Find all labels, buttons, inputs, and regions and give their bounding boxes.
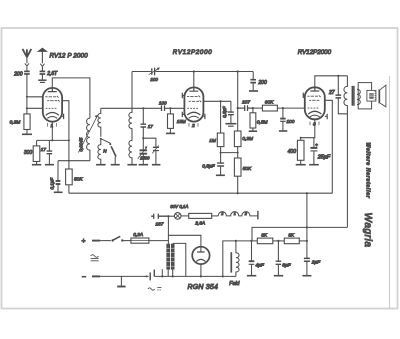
- capacitor 2uF: [306, 261, 308, 275]
- rectifier tube RGN354: [192, 247, 209, 264]
- node top rail / coupling: [237, 70, 239, 72]
- wire filter node row: [223, 241, 257, 277]
- wire anode feed rectifier: [168, 235, 201, 251]
- tube V2 pin bar right: [203, 114, 205, 120]
- resistor 15M: [169, 108, 171, 114]
- resistor 0,5M: [252, 108, 254, 113]
- svg-text:0,2M: 0,2M: [10, 120, 21, 126]
- svg-text:17: 17: [41, 147, 47, 152]
- choke (barretter): [218, 212, 257, 216]
- svg-text:200: 200: [13, 71, 23, 77]
- fuse 0,2A: [122, 240, 131, 242]
- ground (1500): [139, 164, 149, 166]
- terminal bar (minus plug): [149, 272, 151, 280]
- ground (25uF): [309, 164, 319, 166]
- tube V1 RV12P2000 (capsule): [43, 88, 62, 122]
- lamp 30V 0,1A: [168, 215, 174, 217]
- svg-text:2: 2: [191, 123, 195, 129]
- wire detector node: [58, 160, 90, 162]
- mains transformer primary winding: [167, 216, 169, 244]
- tube V3 anode top cap: [310, 87, 319, 91]
- wire secondary top to rail: [173, 243, 186, 276]
- svg-text:N: N: [103, 149, 107, 154]
- switch N (band): [101, 139, 111, 144]
- earth terminal arrow symbol: [38, 48, 46, 51]
- svg-text:200: 200: [257, 80, 267, 86]
- svg-text:2: 2: [244, 212, 247, 216]
- wire minus lead: [92, 275, 100, 277]
- wire plus lead: [92, 240, 100, 242]
- svg-text:RV12P2000: RV12P2000: [298, 49, 332, 56]
- output transformer primary: [344, 76, 347, 228]
- label tube number 3: [310, 122, 319, 126]
- symbol AC/DC: [91, 255, 99, 258]
- ground (15M): [166, 132, 175, 134]
- ground (switch): [111, 164, 120, 166]
- plug chevron earth: [40, 64, 44, 67]
- speaker cone: [379, 89, 381, 103]
- capacitor 8uF: [277, 241, 279, 275]
- svg-text:1: 1: [234, 212, 236, 216]
- svg-text:Weitere Hersteller: Weitere Hersteller: [364, 143, 370, 199]
- node 17/1500: [142, 137, 144, 139]
- ground (0,5uF plate): [225, 123, 236, 125]
- resistor 400: [300, 138, 302, 141]
- wire long chassis rail: [69, 192, 332, 194]
- svg-text:1M: 1M: [209, 138, 216, 144]
- tube V2 electrode row 1: [187, 96, 200, 98]
- wire grid feeds tube 1: [27, 97, 43, 109]
- node antenna/grid: [26, 96, 28, 98]
- tube V3 pin bar right: [325, 114, 327, 120]
- svg-text:17: 17: [148, 124, 154, 129]
- antenna: [23, 49, 32, 57]
- wire tube V1 cathode down: [51, 122, 53, 141]
- svg-text:100: 100: [159, 101, 167, 106]
- capacitor 200 (antenna): [24, 70, 30, 72]
- label tube number 2: [189, 123, 198, 127]
- ground (0,1uF): [54, 191, 63, 193]
- wire tube V1 anode to coil: [52, 78, 90, 118]
- svg-text:0,5M: 0,5M: [257, 119, 268, 125]
- svg-text:2,6T: 2,6T: [46, 71, 58, 77]
- tube V3 cathode arcs: [308, 111, 321, 114]
- wire tube V2 plate node: [203, 100, 231, 102]
- svg-text:3K: 3K: [288, 232, 295, 237]
- node 187/lamp: [167, 215, 169, 217]
- node rail/17: [142, 107, 144, 109]
- ground (L3): [127, 164, 136, 166]
- svg-text:400: 400: [288, 149, 297, 155]
- ground (300): [32, 164, 41, 166]
- svg-text:0,5µF: 0,5µF: [202, 163, 215, 169]
- resistor 0,2M: [237, 108, 239, 131]
- ground (0,2M): [22, 133, 32, 135]
- coil L1 0,0045 (variable): [87, 118, 90, 161]
- wire tube V3 screen lead right: [325, 100, 333, 193]
- svg-text:0,5µF: 0,5µF: [222, 106, 227, 118]
- wire tube V1 diode plate down: [62, 101, 69, 161]
- resistor 3K (second): [284, 238, 299, 244]
- svg-text:50K: 50K: [74, 177, 83, 183]
- resistor 0,2M: [24, 114, 30, 130]
- wire tube V3 cathode: [301, 119, 315, 137]
- capacitor 25uF (electrolytic): [313, 138, 315, 165]
- output transformer core: [352, 86, 354, 106]
- label tube number 1: [48, 123, 57, 127]
- capacitor 100 trimmer (top rail): [152, 68, 155, 76]
- wire rectifier cathode: [200, 264, 202, 276]
- resistor 300: [36, 140, 38, 146]
- tube V3 RV12P2000 (capsule): [305, 87, 325, 119]
- svg-text:+: +: [81, 238, 85, 245]
- ground (17): [45, 164, 54, 166]
- ground (0,5M): [249, 130, 257, 132]
- wire 3K to screen line: [299, 240, 307, 242]
- tube V1 grid row: [46, 107, 57, 109]
- tube V3 electrode row 2: [309, 99, 319, 101]
- speaker voice coil box: [367, 90, 376, 101]
- arrow L1 variable: [78, 117, 97, 153]
- resistor 1M: [220, 101, 222, 133]
- wire tube V3 anode to transformer: [315, 76, 348, 88]
- tube V2 anode top cap: [189, 87, 198, 91]
- capacitor 200 (top rail, to ground): [252, 72, 254, 91]
- ground (0,5uF AF): [216, 174, 225, 176]
- svg-text:107: 107: [242, 99, 250, 105]
- ground (trimmer): [152, 164, 161, 166]
- tube V2 RV12P2000 (capsule): [184, 87, 203, 121]
- tube V2 pin bars left: [182, 93, 184, 117]
- wire 1M/0,2M junction: [221, 152, 238, 154]
- capacitor 17 (cathode): [48, 140, 50, 164]
- ground (100): [279, 130, 287, 132]
- wire screen feed vertical: [306, 193, 308, 258]
- capacitor 100 (series grid): [162, 105, 165, 111]
- node tube V2 anode/top rail: [193, 70, 195, 72]
- node 0,5M: [252, 107, 254, 109]
- node grid tube V3: [282, 107, 284, 109]
- node 107: [237, 107, 239, 109]
- ground (400): [296, 164, 306, 166]
- speaker frame: [358, 83, 371, 109]
- tube V2 cathode arcs: [187, 112, 200, 115]
- tube V1 anode top cap: [48, 88, 57, 92]
- resistor 3K (first): [257, 238, 273, 244]
- svg-text:3K: 3K: [261, 232, 268, 237]
- tube V3 grid row: [308, 107, 319, 109]
- node 27 tap: [337, 75, 339, 77]
- svg-text:2µF: 2µF: [311, 260, 321, 266]
- capacitor 2,6T: [40, 70, 46, 72]
- capacitor 0,1uF: [57, 161, 59, 192]
- divider rule: [389, 76, 391, 308]
- svg-text:Wagria: Wagria: [362, 213, 373, 248]
- capacitor 0,5uF (plate bypass): [230, 101, 232, 123]
- plug chevron antenna: [25, 63, 29, 66]
- wire tube V2 anode: [193, 72, 195, 88]
- resistor 50K (AF): [237, 153, 239, 158]
- wire cathode node: [37, 139, 69, 141]
- wire B+ rail: [252, 227, 347, 241]
- symbol mains AC: [148, 288, 155, 290]
- tube V3 pin bar left: [303, 93, 305, 98]
- wire between 3K: [273, 240, 285, 242]
- svg-text:100: 100: [150, 77, 158, 82]
- svg-text:0,2A: 0,2A: [133, 232, 143, 238]
- ground (2uF): [302, 275, 311, 277]
- svg-text:RGN 354: RGN 354: [188, 284, 219, 291]
- svg-text:25µF: 25µF: [317, 155, 331, 161]
- switch (mains): [111, 239, 113, 241]
- tube V2 grid row: [187, 107, 198, 109]
- ground (minus rail): [120, 276, 122, 286]
- svg-text:Feld: Feld: [229, 281, 240, 287]
- coil L3: [129, 72, 132, 165]
- ground (2,6T): [38, 79, 46, 81]
- ground (200): [249, 90, 258, 92]
- resistor 60K: [253, 107, 263, 109]
- svg-text:0,2M: 0,2M: [242, 136, 253, 142]
- capacitor 0,5uF (AF coupling): [220, 153, 222, 175]
- svg-text:300: 300: [24, 150, 33, 156]
- field coil Feld: [236, 241, 239, 277]
- tube V1 electrode row 2: [47, 100, 59, 102]
- ground (8uF): [274, 275, 283, 277]
- svg-text:−: −: [82, 274, 86, 281]
- wire bottom supply rail: [154, 275, 236, 277]
- svg-text:100: 100: [286, 119, 294, 125]
- wire antenna stem: [26, 57, 28, 114]
- ground (4uF): [247, 275, 256, 277]
- svg-text:+: +: [315, 142, 318, 147]
- resistor 50K (detector): [68, 161, 70, 169]
- tube V1 cathode arcs: [46, 113, 59, 116]
- svg-text:50K: 50K: [243, 166, 252, 172]
- svg-text:27: 27: [328, 90, 335, 96]
- svg-text:60K: 60K: [265, 99, 274, 105]
- capacitor 4uF (electrolytic): [251, 241, 253, 275]
- capacitor 107 (coupling): [238, 105, 253, 111]
- wire anode top rail: [132, 71, 253, 73]
- svg-text:30V 0,1A: 30V 0,1A: [170, 204, 188, 209]
- wire fuse to transformer: [149, 240, 169, 242]
- tube V1 heater pin bar: [62, 114, 64, 120]
- wire grid rail RF: [101, 107, 185, 109]
- tube V3 electrode row 1: [307, 95, 320, 97]
- capacitor 100 (tube V3 grid): [282, 108, 284, 131]
- capacitor 187: [151, 214, 168, 219]
- svg-text:2: 2: [220, 212, 223, 216]
- capacitor trimmer (right of 1500): [143, 138, 156, 164]
- svg-text:0,1µF: 0,1µF: [49, 178, 54, 190]
- svg-text:2,3A: 2,3A: [194, 220, 205, 226]
- capacitor 1500 (variable): [142, 138, 144, 164]
- resistor 2,3A (dropper): [181, 215, 189, 217]
- wire top rail to 107 node: [237, 72, 239, 109]
- mains transformer secondary winding: [171, 244, 175, 270]
- svg-text:4µF: 4µF: [255, 262, 264, 268]
- output transformer secondary: [357, 89, 360, 104]
- svg-text:1500: 1500: [140, 155, 150, 160]
- svg-text:8µF: 8µF: [282, 262, 291, 268]
- node 15M tap: [169, 107, 171, 109]
- terminal bar (choke): [257, 211, 259, 220]
- tube V2 electrode row 2: [189, 101, 201, 103]
- coil L2 with tap: [98, 108, 101, 164]
- capacitor 27: [338, 76, 347, 114]
- svg-text:15M: 15M: [177, 119, 186, 124]
- svg-text:RV12P2000: RV12P2000: [173, 49, 213, 56]
- capacitor 17 (rail): [142, 108, 144, 138]
- svg-text:RV12 P 2000: RV12 P 2000: [50, 53, 89, 60]
- svg-text:187: 187: [155, 222, 163, 228]
- ground (L2): [96, 164, 106, 166]
- tube V1 electrode row 1: [45, 96, 58, 98]
